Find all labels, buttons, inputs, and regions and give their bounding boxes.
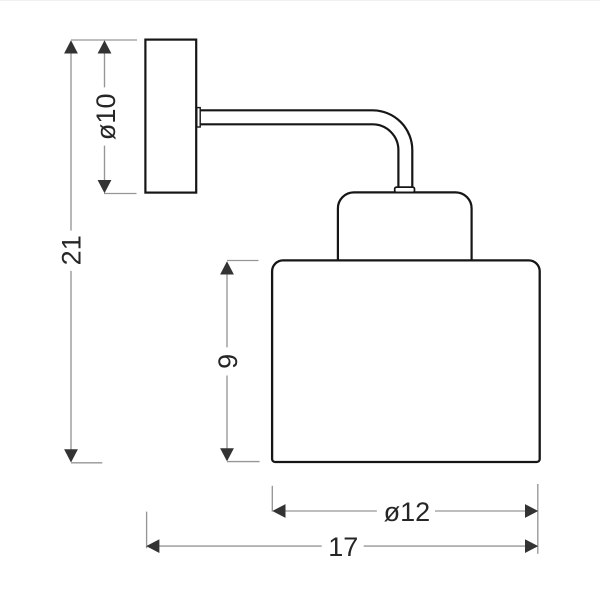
svg-text:ø10: ø10: [91, 94, 121, 141]
dim 9: bottom arrow: [220, 448, 234, 461]
svg-text:21: 21: [57, 235, 87, 265]
svg-text:9: 9: [213, 354, 243, 369]
tube collar: [395, 187, 415, 192]
dim 21: dimension line upper segment: [70, 42, 72, 231]
dim 9: top extension line: [227, 260, 259, 262]
arm tube inner line: [200, 124, 398, 188]
dim 9: dimension line upper segment: [226, 263, 228, 347]
dim 12: dimension line left segment: [274, 510, 377, 512]
dim 17: dimension line left segment: [148, 545, 322, 547]
dim 9: dimension line lower segment: [226, 376, 228, 461]
dim 17: left extension line: [146, 512, 148, 549]
dim 10: bottom extension line: [104, 193, 137, 195]
dim 21: top arrow: [64, 40, 78, 53]
dim 9: top arrow: [220, 261, 234, 274]
dim 10: bottom arrow: [98, 180, 112, 193]
dim 12: dimension line right segment: [435, 510, 537, 512]
arm flange: [197, 108, 200, 127]
dim 21: bottom arrow: [64, 449, 78, 462]
lamp shade: [272, 260, 540, 462]
dim 12: right arrow: [525, 504, 538, 518]
dim 10: dimension line lower segment: [104, 146, 106, 192]
dim 17: right arrow: [525, 539, 538, 553]
socket cap: [338, 192, 472, 261]
dim 12: right extension line: [537, 484, 539, 554]
svg-text:ø12: ø12: [384, 497, 431, 527]
dim 9: bottom extension line: [227, 461, 260, 463]
dim 17: left arrow: [146, 539, 159, 553]
dim 12: left extension line: [271, 486, 273, 512]
svg-text:17: 17: [328, 532, 358, 562]
arm tube outer line: [200, 110, 412, 188]
dim 17: dimension line right segment: [364, 545, 537, 547]
dim 10: top arrow: [98, 40, 112, 53]
wall plate: [145, 40, 196, 193]
dim 12: left arrow: [272, 504, 285, 518]
dim 21: top extension line: [71, 39, 137, 41]
dim 21: dimension line lower segment: [70, 271, 72, 461]
dim 21: bottom extension line: [71, 462, 102, 464]
dim 10: dimension line upper segment: [104, 42, 106, 87]
